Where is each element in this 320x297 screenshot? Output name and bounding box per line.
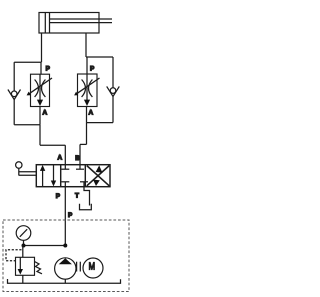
svg-text:A: A (89, 110, 94, 117)
reservoir line (8, 279, 121, 283)
cylinder C1 body (39, 13, 99, 34)
tank T1 (80, 204, 92, 210)
cylinder C1 rod (50, 19, 113, 23)
wire: right join horizontal (87, 122, 114, 124)
check valve CV1 (8, 90, 21, 100)
svg-text:P: P (56, 193, 61, 200)
cylinder C1 piston (45, 13, 49, 34)
svg-text:A: A (43, 110, 48, 117)
coupling (77, 262, 81, 272)
wire: left branch down (39, 125, 41, 145)
wire: left branch to valve A port (64, 145, 66, 165)
DV1 left square arrows (40, 165, 56, 187)
wire: left horizontal to check valve (14, 61, 41, 63)
wire: relief valve inlet (22, 246, 24, 258)
wire: right horizontal to check valve (86, 56, 113, 58)
wire: FC1 A lead down (39, 107, 41, 125)
directional valve DV1 body (36, 165, 110, 187)
svg-text:P: P (90, 66, 95, 73)
pressure gauge G1 (16, 226, 31, 246)
flow control valve FC1 adjust arrow (27, 78, 52, 95)
flow control valve FC2 body (78, 74, 98, 107)
wire: T port jog (84, 187, 90, 206)
relief valve RV1 pilot line (dashed) (6, 250, 22, 261)
power unit dashed enclosure (3, 220, 129, 292)
wire: P line valve to pump (64, 187, 66, 246)
wire: cylinder right port down (85, 33, 87, 57)
wire: relief valve drain (22, 275, 24, 283)
relief valve RV1 spring (35, 262, 43, 274)
svg-text:A: A (58, 155, 63, 162)
wire: right branch down (86, 123, 88, 145)
flow control valve FC2 adjust arrow (74, 78, 99, 95)
junction dot (gauge) (22, 244, 26, 248)
DV1 center square blocked ports (61, 165, 88, 187)
relief valve RV1 body (16, 257, 35, 275)
flow control valve FC2 throttle arcs (82, 80, 93, 98)
wire: throttle FC2 P lead (86, 57, 88, 74)
wire: right branch to valve B port (79, 144, 81, 164)
svg-text:P: P (46, 65, 51, 72)
junction dot (pump) (63, 244, 67, 248)
wire: FC2 A lead down (86, 107, 88, 123)
wire: check valve CV1 lower lead (13, 100, 15, 125)
flow control valve FC2 flow line + arrowhead (84, 74, 90, 106)
svg-text:T: T (75, 193, 79, 200)
wire: pump suction (64, 279, 66, 283)
wire: left branch jog right (40, 144, 65, 146)
wire: cylinder left port down (41, 33, 43, 62)
wire: check valve CV1 upper lead (13, 62, 15, 91)
svg-text:M: M (89, 262, 95, 273)
svg-text:B: B (75, 155, 80, 162)
flow control valve FC1 throttle arcs (35, 80, 46, 98)
DV1 lever operator (16, 162, 37, 176)
motor M1 (83, 258, 103, 278)
DV1 right square crossed arrows (87, 165, 109, 186)
relief valve RV1 arrow (18, 257, 23, 274)
flow control valve FC1 body (31, 74, 50, 106)
wire: check valve CV2 upper lead (112, 57, 114, 88)
pump PU1 (55, 258, 76, 279)
wire: pressure header (24, 245, 66, 247)
wire: right branch jog left (80, 143, 87, 145)
wire: left join horizontal (14, 124, 40, 126)
wire: throttle FC1 P lead (40, 62, 42, 74)
svg-text:P: P (68, 212, 73, 219)
wire: check valve CV2 lower lead (112, 97, 114, 123)
flow control valve FC1 flow line + arrowhead (37, 74, 43, 106)
check valve CV2 (107, 86, 120, 96)
